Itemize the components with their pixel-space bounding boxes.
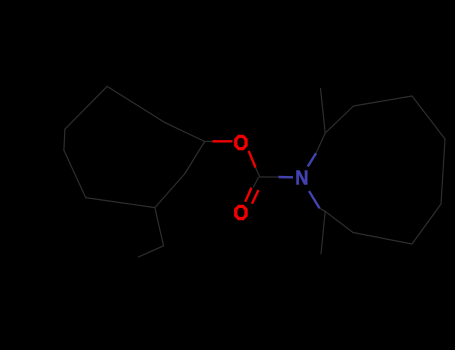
wire: carbonyl C to N (carbon half) bbox=[260, 176, 279, 178]
wire: C=O double bond line 1 bbox=[245, 188, 251, 202]
wire: left ring bond apex T2 to L1 bbox=[65, 86, 107, 129]
wire: left ring bond A-T1 bbox=[165, 123, 205, 142]
wire: bond A to ester O (carbon half) bbox=[205, 140, 214, 142]
wire: right ring edge P2-P3 bbox=[412, 96, 445, 139]
wire: ethyl substituent bond BM-Z1 bbox=[155, 208, 164, 246]
wire: right ring bond V1-P1 bbox=[325, 106, 353, 133]
wire: methyl substituent on V1 bbox=[321, 89, 326, 134]
wire: left ring bond BM-B bbox=[155, 174, 185, 208]
wire: red half-bond into ester O from left bbox=[213, 140, 233, 142]
wire: left ring bond B-A bbox=[185, 142, 205, 175]
wire: methyl substituent on V2 bbox=[321, 211, 325, 254]
wire: blue half-bond N to lower chain bbox=[309, 191, 320, 208]
atom O1 ester oxygen bbox=[234, 135, 248, 151]
wire: right ring bond V2-P6 bbox=[325, 211, 353, 232]
svg-text:N: N bbox=[295, 168, 308, 190]
wire: blue half-bond carbonyl C to N bbox=[279, 176, 294, 179]
wire: right ring edge P1-P2 bbox=[354, 96, 413, 106]
wire: left ring bottom bond BL-BM bbox=[86, 198, 155, 208]
wire: ester O to carbonyl C (carbon half) bbox=[256, 168, 260, 178]
wire: red half-bond ester O to carbonyl C bbox=[249, 151, 256, 168]
wire: ethyl substituent bond Z1-Z2 bbox=[138, 246, 163, 257]
wire: right ring edge P5-P6 bbox=[353, 233, 412, 245]
atom O2 carbonyl oxygen bbox=[234, 205, 248, 221]
wire: left ring bond L2-BL bbox=[64, 150, 86, 197]
wire: left ring bond T1 to apex T2 bbox=[107, 86, 165, 122]
wire: right ring edge P4-P5 bbox=[412, 204, 441, 244]
wire: blue half-bond N to upper chain bbox=[308, 153, 316, 166]
wire: C=O double bond gray tip bbox=[254, 178, 259, 188]
wire: N upper bond carbon half to V1 bbox=[316, 133, 325, 153]
wire: C=O double bond line 2 bbox=[252, 190, 259, 204]
wire: left ring short edge L1-L2 bbox=[64, 129, 65, 150]
wire: right ring edge P3-P4 bbox=[441, 139, 445, 204]
wire: N lower bond carbon half to V2 bbox=[320, 208, 326, 211]
